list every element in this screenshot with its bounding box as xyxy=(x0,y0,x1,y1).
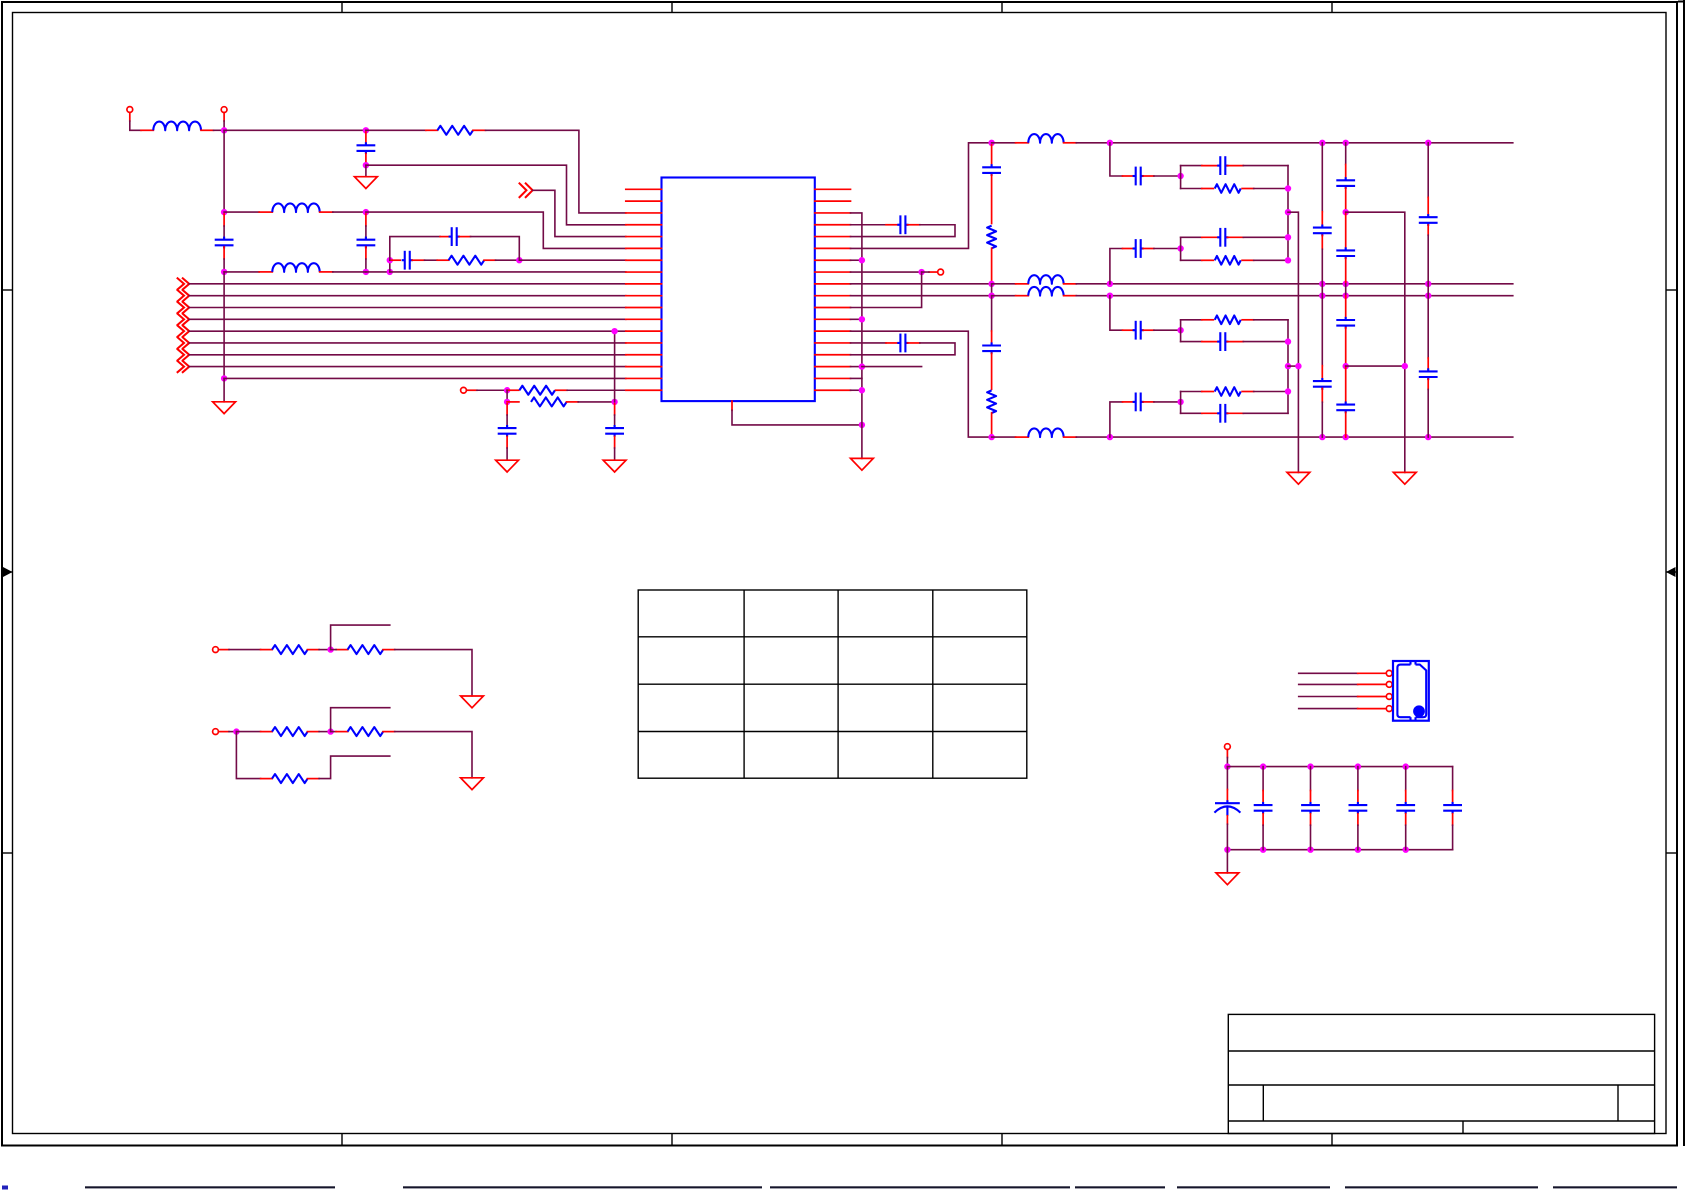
junction VIN xyxy=(221,127,227,133)
wire xyxy=(1405,767,1407,791)
wire VIN trunk xyxy=(223,130,225,212)
wire to R1 xyxy=(366,129,426,131)
junction bus pin7 xyxy=(859,257,865,263)
capacitor chainA series xyxy=(1133,167,1144,186)
pin L-bottom.1 xyxy=(1016,436,1029,438)
capacitor blockC-bot xyxy=(1217,332,1228,351)
pin blockD-bot.1 xyxy=(1202,412,1219,414)
wire bus row xyxy=(189,307,626,309)
wire right bus xyxy=(851,213,862,459)
capacitor C4 xyxy=(402,251,413,270)
junction bus gnd xyxy=(859,422,865,428)
wire bank bottom rail xyxy=(1227,849,1452,851)
wire U1 bottom to bus xyxy=(732,410,862,425)
no-connect chevron xyxy=(177,325,189,337)
wire xyxy=(1357,767,1359,791)
terminal USB pin2 xyxy=(1386,682,1392,688)
junction ground rail 2 xyxy=(1402,363,1408,369)
inductor L3 xyxy=(272,263,319,272)
wire xyxy=(496,259,520,261)
junction pin9 rail xyxy=(1107,281,1113,287)
capacitor C12 xyxy=(1313,225,1332,237)
ground GND10 xyxy=(1216,873,1239,885)
capacitor C20 (polarized) xyxy=(1214,800,1240,816)
junction RC node B xyxy=(516,257,522,263)
pin C24.1 xyxy=(1405,791,1407,803)
pin L1.2 xyxy=(201,129,214,131)
resistor blockA-bot xyxy=(1215,184,1241,193)
pin C18.1 xyxy=(1427,197,1429,215)
wire USB pin3 xyxy=(1299,696,1358,698)
pin USB3 xyxy=(1358,696,1385,698)
junction pin9 rail xyxy=(1425,281,1431,287)
wire xyxy=(1254,259,1288,261)
pin C17.2 xyxy=(1345,412,1347,437)
wire xyxy=(1405,825,1407,850)
resistor R11 xyxy=(272,774,308,783)
pin chainD-cap.1 xyxy=(1123,401,1134,403)
pin chainB-cap.1 xyxy=(1123,248,1134,250)
no-connect chevron xyxy=(177,349,189,361)
wire xyxy=(1243,236,1288,238)
wire bus row xyxy=(189,283,626,285)
pin C24.2 xyxy=(1405,814,1407,826)
ground GND7 xyxy=(1393,472,1416,484)
pin USB1 xyxy=(1358,672,1385,674)
pin C15.1 xyxy=(1345,212,1347,248)
capacitor C23 xyxy=(1349,802,1368,814)
wire P2 stub xyxy=(223,113,225,131)
pin chainB-cap.2 xyxy=(1143,248,1154,250)
junction pin8 tap xyxy=(918,269,924,275)
junction ground rail 1 xyxy=(1295,363,1301,369)
wire VIN to C1 top xyxy=(224,129,366,131)
resistor R9 xyxy=(272,727,308,736)
IC U1 left pins xyxy=(626,189,662,390)
wire xyxy=(319,649,331,651)
wire blockB left leg xyxy=(1180,237,1182,260)
pin C8.1 xyxy=(886,224,898,226)
pin C10.2 / R5.1 xyxy=(991,175,993,223)
wire xyxy=(992,295,1016,297)
wire xyxy=(1254,188,1288,190)
junction pin10 rail xyxy=(1425,292,1431,298)
pin C2.2 xyxy=(223,247,225,259)
pin blockA-bot.1 xyxy=(1202,188,1214,190)
wire xyxy=(506,390,508,402)
wire xyxy=(1154,248,1181,250)
pin C5.2 xyxy=(459,236,470,238)
wire bus row xyxy=(189,318,626,320)
resistor R7 xyxy=(272,645,308,654)
junction C3 bottom xyxy=(363,269,369,275)
junction L2 in xyxy=(221,209,227,215)
capacitor C9 xyxy=(897,334,908,353)
junction div2 xyxy=(327,728,333,734)
inductor L2 xyxy=(272,203,319,212)
wire railB upper xyxy=(1321,143,1323,212)
pin C7.1 xyxy=(614,404,616,415)
pin blockB-top.1 xyxy=(1202,236,1219,238)
junction C1 top xyxy=(363,127,369,133)
pin L-top.2 xyxy=(1064,142,1077,144)
wire xyxy=(1181,319,1202,321)
wire xyxy=(1226,758,1228,767)
junction C1 bottom xyxy=(363,162,369,168)
junction C3 top xyxy=(363,209,369,215)
junction bus pin12 xyxy=(859,316,865,322)
wire blockA left leg xyxy=(1180,166,1182,189)
junction bank top xyxy=(1403,763,1409,769)
wire USB pin1 xyxy=(1299,672,1358,674)
wire xyxy=(331,649,337,651)
wire pin to bus xyxy=(851,366,862,368)
wire xyxy=(1254,319,1288,321)
wire xyxy=(991,296,993,331)
pin terminal xyxy=(929,271,938,273)
capacitor C11 xyxy=(982,342,1001,354)
junction bank bottom-left xyxy=(1224,847,1230,853)
wire RC left leg xyxy=(389,260,391,272)
connector J1 (USB) xyxy=(1393,661,1429,721)
wire R3 to U1 pin18 xyxy=(567,389,626,391)
wire div2 lower xyxy=(236,732,260,779)
pin R1.2 xyxy=(473,129,486,131)
wire R8 to ground xyxy=(395,650,472,696)
capacitor C19 xyxy=(1419,368,1438,380)
inductor L top rail xyxy=(1028,134,1063,143)
pin blockA-top.1 xyxy=(1202,165,1219,167)
junction blockD left xyxy=(1177,399,1183,405)
wire to U1 pin7 xyxy=(519,259,626,261)
terminal P6 xyxy=(213,729,219,735)
wire railD lower xyxy=(1427,296,1429,358)
junction bank top xyxy=(1355,763,1361,769)
junction R3 in xyxy=(504,387,510,393)
pin blockC-top.1 xyxy=(1202,319,1214,321)
junction top rail xyxy=(1319,140,1325,146)
junction bank top xyxy=(1260,763,1266,769)
pin L3.1 xyxy=(259,271,272,273)
wire top rail xyxy=(1076,142,1513,144)
junction railC tap1 xyxy=(1343,209,1349,215)
terminal P5 xyxy=(213,647,219,653)
wire xyxy=(236,731,260,733)
wire bus row xyxy=(189,295,626,297)
wire xyxy=(1226,824,1228,850)
pin C10.1 xyxy=(991,145,993,166)
capacitor chainB series xyxy=(1133,239,1144,258)
wire xyxy=(1181,259,1202,261)
pin R8.1 xyxy=(336,649,348,651)
wire trunk to ground xyxy=(223,378,225,401)
junction chain top xyxy=(988,140,994,146)
pin C6.1 xyxy=(506,404,508,415)
wire xyxy=(1427,284,1429,296)
pin R11.2 xyxy=(308,778,320,780)
pin blockD-bot.2 xyxy=(1227,412,1243,414)
pin C16.2 xyxy=(1345,328,1347,366)
junction chain row10 xyxy=(988,292,994,298)
wire xyxy=(992,283,1016,285)
wire xyxy=(1154,401,1181,403)
terminal USB pin3 xyxy=(1386,694,1392,700)
pin R10.2 xyxy=(383,731,395,733)
wire pin9 rail xyxy=(851,283,992,285)
resistor R6 xyxy=(987,390,996,413)
pin C14.2 xyxy=(1345,188,1347,212)
wire USB pin2 xyxy=(1299,683,1358,685)
wire xyxy=(614,448,616,460)
pin C11.1 xyxy=(991,331,993,343)
wire xyxy=(1243,412,1288,414)
wire xyxy=(1181,165,1202,167)
pin L3.2 xyxy=(320,271,333,273)
junction CD tap xyxy=(1285,363,1291,369)
junction L3 in xyxy=(221,269,227,275)
junction bank bottom xyxy=(1260,847,1266,853)
wire pin to bus xyxy=(851,377,862,379)
pin L-pin9.1 xyxy=(1016,283,1029,285)
pin L-top.1 xyxy=(1016,142,1029,144)
capacitor C13 xyxy=(1313,378,1332,390)
wire R4 out xyxy=(578,401,614,403)
pin blockD-top.2 xyxy=(1242,391,1254,393)
pin C23.2 xyxy=(1357,814,1359,826)
wire bank top rail xyxy=(1227,766,1452,768)
wire xyxy=(1181,236,1202,238)
pin U1 bottom xyxy=(731,401,733,410)
junction bottom rail xyxy=(1425,434,1431,440)
capacitor C25 xyxy=(1443,802,1462,814)
wire chainC feed xyxy=(1110,296,1123,331)
wire xyxy=(1427,389,1429,437)
wire pin6 to top rail xyxy=(851,143,992,249)
wire L3 out xyxy=(333,271,366,273)
inductor L1 xyxy=(153,122,201,131)
junction bus pin18 xyxy=(859,387,865,393)
junction pin10 rail xyxy=(1319,292,1325,298)
wire C1 bottom to U1 pin4 xyxy=(366,165,626,225)
wire xyxy=(425,259,438,261)
wire bus row xyxy=(189,354,626,356)
capacitor C1 xyxy=(357,142,376,154)
wire xyxy=(992,436,1016,438)
no-connect chevron xyxy=(177,289,189,301)
wire blocks CD right leg xyxy=(1287,320,1289,414)
wire xyxy=(922,271,929,273)
wire L1 to node VIN xyxy=(214,129,225,131)
wire railC 1 xyxy=(1345,143,1347,165)
pin C19.1 xyxy=(1427,358,1429,369)
ground GND2 xyxy=(213,402,236,414)
wire xyxy=(319,731,331,733)
pin R2.1 xyxy=(437,259,449,261)
capacitor C8 xyxy=(897,215,908,234)
wire xyxy=(1154,175,1181,177)
wire trunk row to U1 pin17 xyxy=(224,377,626,379)
pin C19.2 xyxy=(1427,379,1429,389)
pin C21.2 xyxy=(1262,814,1264,826)
wire xyxy=(1243,341,1288,343)
wire C8 loop return xyxy=(862,225,955,237)
inductor L pin10 rail xyxy=(1028,287,1063,296)
pin L2.2 xyxy=(320,211,333,213)
pin L-pin9.2 xyxy=(1064,283,1077,285)
terminal P7 xyxy=(1225,744,1231,750)
wire R1 to U1 pin3 xyxy=(486,130,626,213)
resistor blockC-top xyxy=(1215,316,1241,325)
pin C9.2 xyxy=(908,342,920,344)
wire xyxy=(229,649,261,651)
pin C18.2 xyxy=(1427,225,1429,235)
ground GND3 xyxy=(496,460,519,472)
wire blocks AB right leg xyxy=(1287,166,1289,261)
capacitor C22 xyxy=(1301,802,1320,814)
junction pin10 rail xyxy=(1107,292,1113,298)
wire xyxy=(1452,767,1454,791)
pin C22.2 xyxy=(1310,814,1312,826)
wire R11 tap xyxy=(319,756,390,779)
resistor R10 xyxy=(348,727,384,736)
pin R9.2 xyxy=(308,731,320,733)
capacitor C15 xyxy=(1336,247,1355,259)
pin C1.1 xyxy=(365,132,367,143)
wire to L3 xyxy=(224,271,259,273)
junction bottom rail xyxy=(1107,434,1113,440)
wire L2 out xyxy=(333,211,366,213)
junction bottom rail xyxy=(1319,434,1325,440)
capacitor C18 xyxy=(1419,214,1438,226)
pin xyxy=(1226,750,1228,758)
pin blockB-bot.2 xyxy=(1242,259,1254,261)
wire pin8 to pin11 xyxy=(851,272,922,307)
wire chainA feed xyxy=(1110,143,1123,176)
junction chain row9 xyxy=(988,281,994,287)
capacitor C14 xyxy=(1336,177,1355,189)
pin xyxy=(218,649,229,651)
pin C12.1 xyxy=(1321,212,1323,226)
pin C11.2 / R6.1 xyxy=(991,353,993,389)
wire pin16 stub xyxy=(862,366,922,368)
pin C7.2 xyxy=(614,437,616,449)
junction trunk row17 xyxy=(221,375,227,381)
terminal USB pin4 xyxy=(1386,706,1392,712)
wire xyxy=(1310,767,1312,791)
pin C5.1 xyxy=(440,236,449,238)
wire xyxy=(506,448,508,460)
wire xyxy=(1226,850,1228,873)
wire pin4 xyxy=(851,224,887,226)
junction R4 C7 xyxy=(611,399,617,405)
capacitor C6 xyxy=(498,425,517,437)
wire RC top branch xyxy=(390,237,440,261)
wire C9 loop return xyxy=(862,343,955,355)
wire row to U1 pin8 xyxy=(390,271,626,273)
junction bank top xyxy=(1307,763,1313,769)
pin C12.2 xyxy=(1321,235,1323,249)
junction blockB right xyxy=(1285,234,1291,240)
wire trunk to lower xyxy=(223,272,225,379)
wire bottom rail xyxy=(1076,436,1513,438)
wire bus row xyxy=(189,366,626,368)
wire CD tap link xyxy=(1288,365,1298,367)
resistor R5 xyxy=(987,226,996,249)
no-connect chevron xyxy=(177,301,189,313)
capacitor C21 xyxy=(1254,802,1273,814)
pin C17.1 xyxy=(1345,366,1347,402)
terminal P2 xyxy=(221,107,227,113)
pin R4.1 xyxy=(507,401,519,403)
pin C25.1 xyxy=(1452,791,1454,803)
pin USB4 xyxy=(1358,708,1385,710)
resistor R4 xyxy=(531,397,567,406)
pin C6.2 xyxy=(506,437,508,449)
pin C25.2 xyxy=(1452,814,1454,826)
capacitor C2 xyxy=(215,237,234,249)
pin L2.1 xyxy=(259,211,272,213)
wire pin to bus xyxy=(851,354,862,356)
wire blockD left leg xyxy=(1180,392,1182,414)
IC U1 right pins xyxy=(815,189,851,390)
wire riser to row13 xyxy=(614,331,616,402)
capacitor blockA-top xyxy=(1217,156,1228,175)
pin R3.1 xyxy=(507,389,519,391)
pin chainC-cap.2 xyxy=(1143,329,1154,331)
pin R2.2 xyxy=(484,259,495,261)
terminal P1 xyxy=(127,107,133,113)
pin C1.2 xyxy=(365,154,367,163)
wire R10 to ground xyxy=(395,732,472,778)
wire xyxy=(1262,767,1264,791)
ground GND4 xyxy=(603,460,626,472)
pin R7.2 xyxy=(308,649,320,651)
wire xyxy=(1321,249,1323,284)
junction bus pin16 xyxy=(859,363,865,369)
junction top rail xyxy=(1425,140,1431,146)
no-connect chevron xyxy=(177,337,189,349)
inductor L bottom rail xyxy=(1028,428,1063,437)
pin R11.1 xyxy=(261,778,273,780)
wire xyxy=(1181,412,1202,414)
junction blockB bottom xyxy=(1285,257,1291,263)
wire xyxy=(1345,284,1347,296)
wire blockC left leg xyxy=(1180,320,1182,342)
pin R1.1 xyxy=(426,129,438,131)
capacitor C16 xyxy=(1336,317,1355,329)
pin C13.2 xyxy=(1321,388,1323,402)
junction blockA right xyxy=(1285,185,1291,191)
pin C4.1 xyxy=(392,259,401,261)
wire bus row xyxy=(189,330,626,332)
resistor blockD-top xyxy=(1215,387,1241,396)
junction row13 riser xyxy=(611,328,617,334)
wire P1 to L1 xyxy=(130,112,141,130)
pin C3.1 xyxy=(365,214,367,226)
wire xyxy=(223,226,225,238)
wire xyxy=(1254,391,1288,393)
wire railB lower xyxy=(1321,296,1323,366)
capacitor C5 xyxy=(449,227,460,246)
junction blockC right xyxy=(1285,338,1291,344)
pin R7.1 xyxy=(261,649,273,651)
junction top rail xyxy=(1107,140,1113,146)
wire chainB feed xyxy=(1110,249,1123,284)
pin chainC-cap.1 xyxy=(1123,329,1134,331)
off-page chevron IN1 xyxy=(519,183,533,198)
no-connect chevron xyxy=(177,313,189,325)
wire ground rail 1 xyxy=(1288,212,1298,472)
